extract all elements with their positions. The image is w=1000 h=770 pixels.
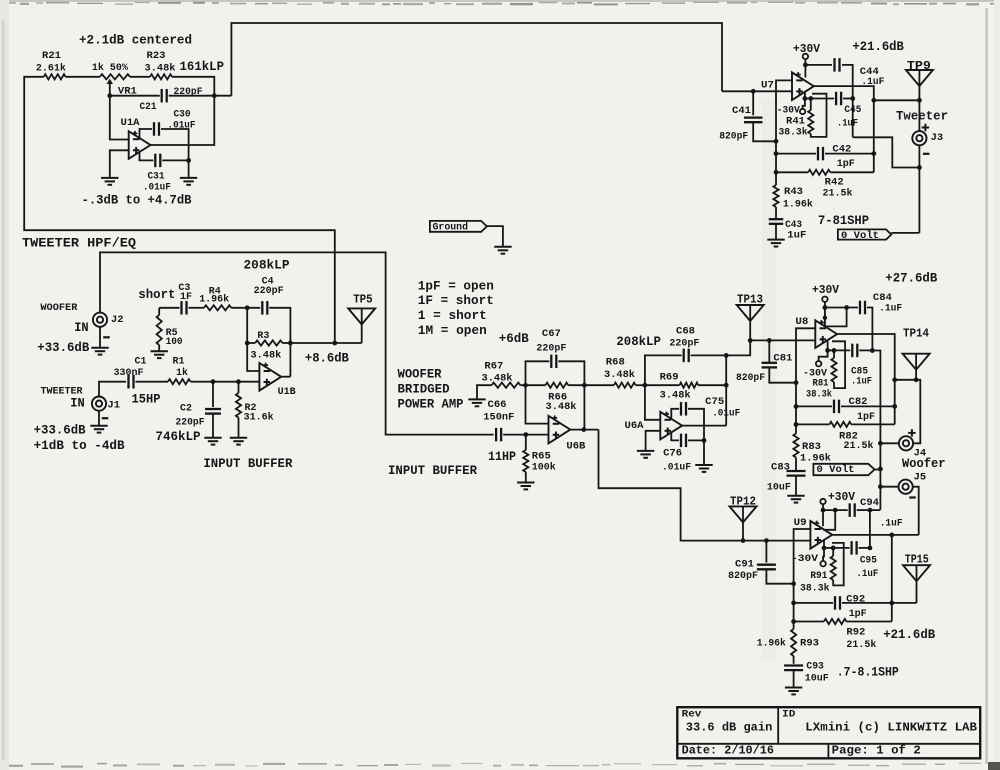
svg-text:J2: J2 <box>111 315 124 326</box>
resistor R82 21.5k feedback <box>796 423 830 425</box>
capacitor C84 .1uF supply bypass <box>825 307 858 309</box>
wire C84 tap to U8 body <box>825 308 846 327</box>
scan artifact left edge band <box>0 0 9 770</box>
ground at J2 <box>91 347 108 349</box>
svg-text:208kLP: 208kLP <box>244 258 290 273</box>
svg-text:+30V: +30V <box>812 284 839 297</box>
ground at C75/C76 <box>695 464 712 466</box>
svg-text:-30V: -30V <box>791 553 819 565</box>
capacitor C68 220pF feedback <box>645 355 682 385</box>
wire U6A non-inverting input to ground <box>646 431 661 451</box>
ground under C30/C31 <box>180 177 197 179</box>
capacitor C82 1pF feedback <box>796 405 832 407</box>
U9 output wire <box>832 534 919 536</box>
svg-text:IN: IN <box>70 397 85 411</box>
junction C84 row to inverting tap <box>844 305 849 310</box>
svg-text:C91: C91 <box>735 558 754 570</box>
resistor R65 100k to ground <box>525 435 527 450</box>
svg-text:TP9: TP9 <box>907 60 931 73</box>
svg-text:TWEETER HPF/EQ: TWEETER HPF/EQ <box>22 236 136 251</box>
resistor R23 3.48k <box>150 74 172 79</box>
svg-text:+30V: +30V <box>828 491 855 504</box>
junction C41 tap <box>751 89 756 94</box>
connector J3 tweeter output <box>912 131 926 145</box>
svg-text:1.96k: 1.96k <box>783 199 813 211</box>
svg-text:TP15: TP15 <box>905 554 929 567</box>
junction output to TP9/J3 <box>871 98 876 103</box>
svg-text:R21: R21 <box>42 50 61 62</box>
svg-text:+21.6dB: +21.6dB <box>883 628 935 642</box>
title block divider horizontal <box>677 743 980 745</box>
svg-text:10uF: 10uF <box>767 481 791 493</box>
wire VR1 node down to U1A inverting input <box>110 96 129 140</box>
svg-text:+1dB to -4dB: +1dB to -4dB <box>34 439 126 453</box>
svg-text:R67: R67 <box>484 360 503 372</box>
wire C68 row to U8 input <box>726 340 750 355</box>
resistor R2 31.6k to ground <box>238 382 240 393</box>
svg-text:POWER AMP: POWER AMP <box>398 398 464 412</box>
svg-text:1.96k: 1.96k <box>199 293 229 305</box>
svg-text:21.5k: 21.5k <box>846 639 876 651</box>
ground at C83 <box>787 495 804 497</box>
svg-text:10uF: 10uF <box>805 673 829 685</box>
capacitor C43 1uF <box>769 218 784 220</box>
svg-text:+21.6dB: +21.6dB <box>852 40 904 54</box>
op-amp U1B <box>259 363 281 391</box>
capacitor C66 150nF input <box>495 428 497 442</box>
svg-text:short: short <box>138 288 175 302</box>
svg-text:C1: C1 <box>135 356 147 368</box>
svg-text:220pF: 220pF <box>176 416 205 428</box>
svg-text:C67: C67 <box>542 328 561 340</box>
svg-text:INPUT BUFFER: INPUT BUFFER <box>388 464 477 478</box>
resistor R3 3.48k <box>247 342 255 344</box>
capacitor C42 1pF feedback <box>776 153 816 155</box>
wire node down to R3 row <box>246 308 248 343</box>
potentiometer VR1 1k 50% <box>100 74 130 79</box>
svg-text:21.5k: 21.5k <box>823 187 853 199</box>
svg-text:1k 50%: 1k 50% <box>92 62 129 74</box>
junction output to TP14 row <box>892 377 897 382</box>
wire J2 to woofer power amp input <box>100 252 494 434</box>
svg-text:U6A: U6A <box>625 420 645 432</box>
junction bus to J4 return <box>878 441 883 446</box>
test point TP14 <box>903 354 930 370</box>
capacitor C1 330nF <box>127 375 129 389</box>
wire J3 return to 0 Volt tag <box>891 232 919 234</box>
junction R4/C4/R3 node <box>245 305 250 310</box>
svg-text:3.48k: 3.48k <box>660 390 691 402</box>
capacitor C76 .01uF <box>671 433 679 440</box>
svg-text:TP13: TP13 <box>737 294 763 307</box>
node A junction (R23/C21/top rail) <box>212 93 217 98</box>
wire C92 row to TP15 <box>892 602 917 604</box>
connector J4 woofer output + <box>899 436 913 450</box>
svg-text:+33.6dB: +33.6dB <box>37 341 89 355</box>
J1 shield to ground <box>98 411 100 426</box>
junction C42 ends <box>774 151 779 156</box>
junction R3/C4 right at output vertical <box>288 341 293 346</box>
svg-text:C75: C75 <box>705 396 724 408</box>
svg-text:TWEETER: TWEETER <box>41 385 84 397</box>
svg-text:1pF: 1pF <box>837 158 855 170</box>
capacitor C75 .01uF <box>671 409 679 418</box>
svg-text:+8.6dB: +8.6dB <box>305 351 349 365</box>
junction node A U6A <box>643 383 648 388</box>
U9 power pin junctions <box>822 546 827 551</box>
svg-text:J5: J5 <box>914 473 927 484</box>
wire U1A non-inverting input to ground <box>110 150 129 178</box>
svg-text:2.61k: 2.61k <box>36 63 66 75</box>
junction +30V stub U9 <box>821 508 826 513</box>
svg-text:R93: R93 <box>800 637 819 649</box>
svg-text:220pF: 220pF <box>669 338 699 350</box>
wire U1B inverting input to feedback node <box>247 343 259 371</box>
scan artifact top edge <box>0 0 1000 2</box>
resistor R69 3.48k <box>645 384 680 386</box>
output vertical down to feedback <box>891 535 893 622</box>
capacitor C67 220pF feedback <box>526 361 550 385</box>
junction J3 return <box>917 165 922 170</box>
net tag Ground <box>430 221 487 232</box>
wire node A down to U6B inverting input <box>526 385 549 423</box>
junction bus to 0 Volt tag <box>878 467 883 472</box>
op-amp U6B <box>549 416 571 444</box>
svg-text:U9: U9 <box>794 517 807 529</box>
svg-text:IN: IN <box>74 321 89 335</box>
svg-text:WOOFER: WOOFER <box>40 302 78 314</box>
svg-text:1pF: 1pF <box>849 608 867 620</box>
op-amp U6A <box>660 412 682 440</box>
power +30V terminal U9 <box>820 499 825 504</box>
svg-text:100: 100 <box>166 336 183 348</box>
svg-text:U1B: U1B <box>278 386 297 398</box>
svg-text:330nF: 330nF <box>114 367 144 379</box>
power -30V terminal U9 <box>822 548 825 561</box>
svg-text:.01uF: .01uF <box>168 120 196 132</box>
wire VR1 to R23 <box>130 76 150 78</box>
junction node B U6B <box>582 383 587 388</box>
svg-text:C92: C92 <box>846 594 865 606</box>
wire node A down to U6A inverting input <box>645 385 660 420</box>
svg-text:VR1: VR1 <box>118 85 137 97</box>
svg-text:.01uF: .01uF <box>143 181 171 193</box>
wire TP14 row to J4 + <box>895 380 921 444</box>
svg-text:C66: C66 <box>488 399 507 411</box>
resistor R42 21.5k feedback <box>776 171 808 173</box>
ground at C93 <box>785 687 802 689</box>
ground at C43 <box>767 239 784 241</box>
svg-text:U1A: U1A <box>121 117 141 129</box>
junction TP14 stem <box>914 377 919 382</box>
svg-text:1uF: 1uF <box>787 230 806 242</box>
svg-text:INPUT BUFFER: INPUT BUFFER <box>203 457 292 471</box>
resistor R91 38.3k <box>832 548 834 556</box>
svg-text:31.6k: 31.6k <box>244 412 274 424</box>
U6B output wire and junction <box>570 429 598 431</box>
ground symbol at Ground tag <box>494 246 511 248</box>
U6A output wire <box>682 425 726 427</box>
svg-text:R69: R69 <box>660 372 679 384</box>
junction bus to J5 return <box>878 484 883 489</box>
svg-text:1.96k: 1.96k <box>757 637 786 649</box>
wire C94 tap to U9 body <box>823 510 835 530</box>
ground at J1 <box>90 425 107 427</box>
svg-text:3.48k: 3.48k <box>482 372 513 384</box>
svg-text:+6dB: +6dB <box>499 332 529 346</box>
feedback row junction left <box>245 341 250 346</box>
op-amp U1B output wire <box>281 376 290 378</box>
svg-text:+30V: +30V <box>793 43 820 56</box>
svg-text:Ground: Ground <box>433 222 469 234</box>
svg-text:1pF = open: 1pF = open <box>418 279 494 293</box>
test point TP5 <box>348 308 375 324</box>
svg-text:-.3dB to +4.7dB: -.3dB to +4.7dB <box>82 194 192 208</box>
svg-text:R68: R68 <box>606 356 625 368</box>
svg-text:820pF: 820pF <box>728 570 758 582</box>
connector J1 tweeter input <box>92 397 106 411</box>
capacitor C4 220pF <box>261 301 263 315</box>
svg-text:220pF: 220pF <box>536 342 566 354</box>
wire J5 to U9 output <box>913 487 919 535</box>
svg-text:C93: C93 <box>806 661 824 673</box>
svg-text:R92: R92 <box>846 627 865 639</box>
junction C41 bottom on rail <box>774 139 779 144</box>
ground at R65 <box>517 482 534 484</box>
resistor R66 3.48k <box>520 384 545 386</box>
junction C91 bottom on rail <box>791 581 796 586</box>
power stub into U9 <box>822 510 824 526</box>
wire J1 up to signal row <box>99 382 126 397</box>
junction C94 to bypass bus <box>868 508 873 513</box>
U8 output wire <box>837 334 895 424</box>
svg-text:Rev: Rev <box>682 709 703 721</box>
svg-text:R83: R83 <box>802 441 821 453</box>
net tag 0 Volt tweeter <box>838 229 891 239</box>
U7 output wire <box>814 86 874 172</box>
svg-text:.1uF: .1uF <box>880 517 903 529</box>
svg-text:C81: C81 <box>773 353 792 365</box>
node VR1 wiper junction <box>107 93 112 98</box>
svg-text:LXmini (c) LINKWITZ LAB: LXmini (c) LINKWITZ LAB <box>805 722 977 735</box>
wire C1 to R1 <box>136 381 169 383</box>
wire J3 - to 0V <box>918 145 920 233</box>
connector J2 woofer input <box>93 313 107 327</box>
svg-text:.7-8.1SHP: .7-8.1SHP <box>837 666 899 680</box>
scan artifact faint vertical band <box>762 100 776 660</box>
resistor R5 100 to ground <box>158 308 160 315</box>
svg-text:+27.6dB: +27.6dB <box>885 271 937 285</box>
ground at C2 <box>204 437 221 439</box>
test point TP13 <box>737 305 764 321</box>
svg-text:+2.1dB centered: +2.1dB centered <box>79 34 192 48</box>
junction TP13 on U8 input row <box>748 338 753 343</box>
capacitor C95 .1uF supply bypass <box>833 547 849 549</box>
svg-text:C76: C76 <box>663 448 682 460</box>
svg-text:R3: R3 <box>257 330 269 342</box>
capacitor C21 220pF <box>110 95 160 97</box>
svg-text:220pF: 220pF <box>174 86 203 98</box>
0V bypass bus U7 to J3 return <box>853 137 920 167</box>
capacitor C94 .1uF supply bypass <box>823 509 848 511</box>
junction C31/C30 to ground leg <box>186 158 191 163</box>
svg-text:100k: 100k <box>532 461 556 473</box>
svg-text:C82: C82 <box>849 396 868 408</box>
svg-text:U6B: U6B <box>566 441 586 453</box>
svg-text:C68: C68 <box>676 325 695 337</box>
junction C94 row to inverting tap <box>833 508 838 513</box>
U8 power pin junctions <box>825 348 830 353</box>
wire U6B output down to U9 input row <box>599 430 811 541</box>
junction C82 ends <box>794 404 799 409</box>
VR1 wiper arrow <box>107 79 113 84</box>
svg-text:1k: 1k <box>176 367 188 379</box>
ground at R2 <box>230 437 247 439</box>
svg-text:1M = open: 1M = open <box>418 324 487 338</box>
svg-text:C94: C94 <box>860 497 879 509</box>
wire tweeter EQ input from U1B output (left vertical) <box>24 77 335 343</box>
title block divider vertical Date/Page <box>827 744 829 759</box>
junction C76 to ground leg <box>702 438 707 443</box>
wire U6B output up to node B <box>583 385 585 429</box>
svg-text:21.5k: 21.5k <box>844 440 874 452</box>
svg-text:.1uF: .1uF <box>856 568 878 580</box>
junction C81 bottom on rail <box>794 380 799 385</box>
wire U8 inverting input to feedback rail <box>796 328 815 424</box>
junction C92 ends <box>791 601 796 606</box>
wire U7 inverting input to feedback rail <box>776 80 792 172</box>
power +30V terminal U8 <box>822 297 827 302</box>
resistor R43 1.96k <box>775 172 777 185</box>
resistor R83 1.96k <box>795 424 797 433</box>
wire U9 inverting input to feedback rail <box>794 529 811 622</box>
power +30V terminal U7 <box>803 54 808 59</box>
junction R92/R93 on rail <box>791 619 796 624</box>
power stub into U8 <box>824 308 826 326</box>
power -30V terminal U8 <box>819 350 828 361</box>
wire U6A output up to node B <box>725 355 727 425</box>
capacitor C41 820pF input filter <box>752 91 754 115</box>
svg-text:+33.6dB: +33.6dB <box>34 423 86 437</box>
junction C91 tap <box>764 538 769 543</box>
svg-text:220pF: 220pF <box>254 285 284 297</box>
svg-text:1F: 1F <box>180 291 192 303</box>
svg-text:Woofer: Woofer <box>902 457 946 471</box>
capacitor C81 820pF input filter <box>768 340 770 362</box>
test point TP12 <box>730 506 757 522</box>
capacitor C91 820pF input filter <box>765 541 767 563</box>
ground at U1A + input <box>101 177 118 179</box>
capacitor C30 .01uF feedback <box>140 129 153 140</box>
svg-text:R43: R43 <box>784 186 803 198</box>
svg-text:33.6 dB gain: 33.6 dB gain <box>686 722 773 735</box>
resistor R92 21.5k feedback <box>794 621 824 623</box>
op-amp U8 power amp <box>815 320 837 348</box>
op-amp U7 power amp <box>792 72 814 100</box>
capacitor C83 10uF <box>787 470 806 472</box>
svg-text:R91: R91 <box>810 570 827 582</box>
junction +30V stub U8 <box>823 305 828 310</box>
svg-text:Tweeter: Tweeter <box>896 109 948 123</box>
title block frame <box>677 707 980 758</box>
wire J3 + from output <box>918 100 920 131</box>
resistor R93 1.96k <box>793 622 795 630</box>
capacitor C93 10uF <box>784 664 803 666</box>
svg-text:Page: 1 of 2: Page: 1 of 2 <box>832 745 921 758</box>
svg-text:U7: U7 <box>761 79 774 91</box>
resistor R81 38.3k <box>833 350 835 358</box>
wire Ground tag to ground symbol <box>487 226 503 247</box>
junction R82/R83 on rail <box>794 422 799 427</box>
resistor R1 1k <box>168 379 191 384</box>
junction C85 on bypass bus <box>870 348 875 353</box>
junction TP12 on U9 input row <box>741 538 746 543</box>
svg-text:TP12: TP12 <box>730 495 756 508</box>
junction C2 <box>211 379 216 384</box>
op-amp U1A <box>129 131 151 159</box>
svg-text:WOOFER: WOOFER <box>398 367 442 381</box>
wire top rail from node A to tweeter amp U7 input <box>231 23 722 96</box>
resistor R67 3.48k <box>492 383 521 388</box>
power -30V terminal U7 <box>803 99 805 109</box>
svg-text:C83: C83 <box>771 462 790 474</box>
junction tweeter EQ tap <box>332 341 337 346</box>
wire R23 right to node A <box>172 77 214 96</box>
test point TP9 <box>906 70 933 86</box>
svg-text:R1: R1 <box>173 356 185 368</box>
svg-text:1 = short: 1 = short <box>418 309 487 323</box>
svg-text:0 Volt: 0 Volt <box>817 464 855 476</box>
junction C45 on bypass bus <box>850 96 855 101</box>
wire R21 to VR1 <box>66 76 100 78</box>
svg-text:820pF: 820pF <box>719 131 748 143</box>
J2 shield to ground <box>99 327 101 348</box>
svg-text:Date: 2/10/16: Date: 2/10/16 <box>682 745 774 758</box>
svg-text:C2: C2 <box>180 403 192 415</box>
svg-text:J1: J1 <box>108 401 121 412</box>
svg-text:161kLP: 161kLP <box>180 59 225 74</box>
ground at U6A + input <box>637 450 654 452</box>
ground at R5 <box>151 350 168 352</box>
svg-text:C21: C21 <box>140 101 157 113</box>
svg-text:BRIDGED: BRIDGED <box>398 383 450 397</box>
svg-text:3.48k: 3.48k <box>546 401 577 413</box>
junction R65 <box>523 432 528 437</box>
svg-text:7-81SHP: 7-81SHP <box>818 214 869 228</box>
resistor R4 1.96k <box>204 305 231 310</box>
svg-text:J3: J3 <box>931 133 944 144</box>
junction C95 on bypass bus <box>868 546 873 551</box>
svg-text:C41: C41 <box>732 105 751 117</box>
junction node A U6B <box>523 383 528 388</box>
svg-text:1pF: 1pF <box>857 411 875 423</box>
svg-text:820pF: 820pF <box>736 372 765 384</box>
junction R42/R43 on rail <box>774 170 779 175</box>
svg-text:3.48k: 3.48k <box>604 369 635 381</box>
scan artifact right edge <box>986 8 988 764</box>
svg-text:C42: C42 <box>832 143 851 155</box>
svg-text:C45: C45 <box>844 104 861 116</box>
title block divider vertical Rev/ID <box>777 707 779 744</box>
capacitor C44 .1uF supply bypass <box>805 64 832 66</box>
resistor R21 2.61k <box>44 74 66 79</box>
wire output row to TP5 <box>290 342 361 344</box>
wire top rail into U7 + input <box>722 90 792 92</box>
net tag 0 Volt woofer <box>813 464 874 475</box>
svg-text:38.3k: 38.3k <box>800 582 830 594</box>
svg-text:R81: R81 <box>813 377 829 389</box>
svg-text:1F = short: 1F = short <box>418 294 494 308</box>
